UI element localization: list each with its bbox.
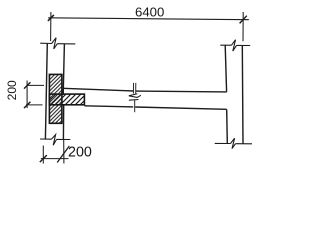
right column bottom break line [215,142,252,144]
left 200 bottom tick [24,102,30,108]
right column top break line [220,44,250,46]
left wall bottom break zigzag [51,135,56,146]
left 200 top extension line [27,84,44,86]
bottom 200 right tick (long leader) [57,146,69,163]
svg-text:6400: 6400 [135,4,164,19]
right column top break zigzag [232,40,237,51]
left wall bottom break line [40,138,70,141]
beam top edge line [63,88,227,92]
bottom 200 left extension line [42,146,44,164]
hatched beam end section (horizontal bar) [49,94,84,105]
svg-text:200: 200 [5,80,19,100]
svg-text:200: 200 [68,144,92,160]
right column right face [241,45,244,143]
bottom 200 right extension line [63,140,65,164]
right tick of 6400 dimension [240,16,247,24]
left wall top break line [40,42,75,45]
right column bottom break zigzag [231,138,236,148]
left 200 dimension line (vertical) [26,81,28,109]
bottom 200 dimension line [41,158,69,160]
left 200 bottom extension line [26,104,43,106]
left tick of 6400 dimension [48,15,54,21]
mid-beam break mark upper double line [133,83,135,94]
right extension line of 6400 dimension [242,12,244,41]
right column left face lower segment [226,109,229,143]
left wall left face [45,43,47,139]
left wall right face lower segment [62,105,64,139]
top dimension line 6400 [48,18,249,20]
left extension line of 6400 dimension [50,12,52,41]
mid-beam break zigzag [129,94,141,100]
left wall right face upper segment [63,44,64,95]
mid-beam break mark lower line [134,100,136,113]
left 200 top tick [24,82,30,88]
right column left face upper segment [225,45,226,92]
hatched wall section (vertical bar) [49,74,62,123]
beam bottom edge line [84,106,226,110]
left wall top break zigzag [52,38,58,49]
bottom 200 left tick [40,155,47,162]
